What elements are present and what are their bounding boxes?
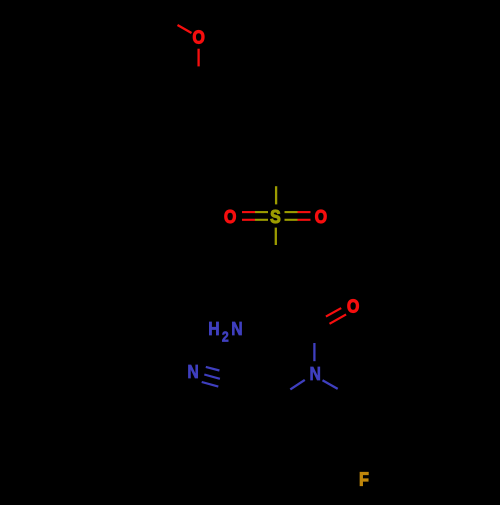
double bond S=O3 lower line — [285, 219, 298, 221]
svg-text:O: O — [347, 295, 359, 317]
svg-text:O: O — [224, 206, 236, 228]
bond O1-Caryl (red half) — [197, 49, 199, 67]
svg-text:O: O — [193, 26, 205, 48]
bond CH3-O (methoxy, red half) — [178, 25, 192, 33]
svg-text:2: 2 — [222, 329, 229, 345]
svg-text:F: F — [359, 468, 369, 490]
bond N3-C5 ring (blue half, lower right) — [323, 380, 338, 389]
double bond C=O4 upper red half — [326, 308, 341, 317]
bond Caryl-S (olive half, above S) — [275, 186, 277, 204]
svg-text:N: N — [309, 363, 320, 385]
svg-text:H: H — [208, 318, 219, 340]
triple bond N2#C middle line (blue half) — [204, 375, 220, 379]
svg-text:N: N — [231, 318, 242, 340]
double bond C=O4 lower red half — [330, 314, 347, 323]
bond S-CH2 (olive half, below S) — [275, 228, 277, 245]
double bond S=O2 upper line — [242, 211, 255, 213]
triple bond N2#C top line (blue half) — [206, 367, 220, 371]
svg-text:O: O — [315, 206, 327, 228]
double bond S=O2 lower line — [242, 219, 255, 221]
bond N3-C(=O) (blue half, above N) — [313, 343, 315, 361]
svg-text:S: S — [270, 206, 281, 228]
double bond S=O3 upper line — [285, 211, 298, 213]
triple bond N2#C bottom line (blue half) — [202, 382, 219, 387]
bond N3-C2 ring (blue half, lower left) — [290, 380, 305, 390]
svg-text:N: N — [187, 361, 198, 383]
